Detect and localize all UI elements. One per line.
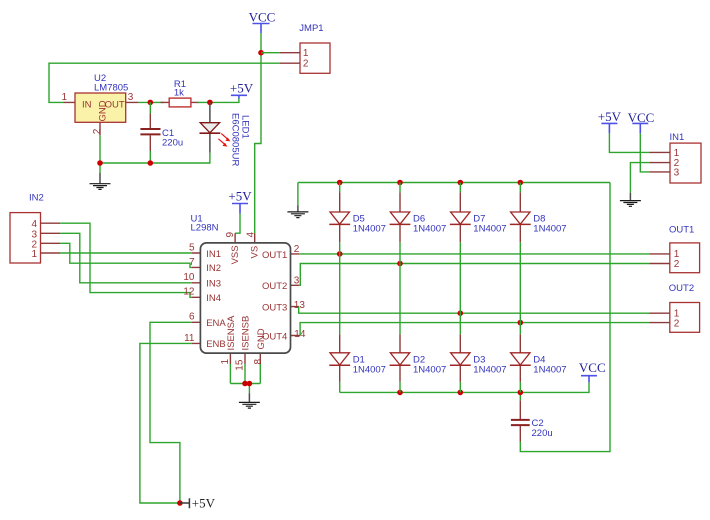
svg-text:11: 11 [184,333,195,344]
svg-text:OUT2: OUT2 [669,283,694,294]
svg-text:1N4007: 1N4007 [353,224,386,235]
svg-text:OUT3: OUT3 [262,302,287,313]
LED LED1 E6C0805UR [200,102,251,166]
diode D8 1N4007 [510,183,567,335]
wire JMP1 pin 2 to U2 IN [49,63,280,102]
node C1 bottom junction [148,160,154,166]
svg-text:7: 7 [189,257,195,268]
svg-text:1N4007: 1N4007 [473,365,506,376]
node VCC/JMP1 junction [258,50,264,56]
node R1/C1 junction [148,100,154,106]
node top bus junctions [337,180,343,186]
svg-text:IN3: IN3 [206,279,221,290]
svg-text:IN1: IN1 [206,249,221,260]
wire IN1 pin 2 to ground [630,163,649,193]
diode D4 1N4007 [510,334,567,392]
svg-text:VCC: VCC [579,360,606,375]
svg-text:E6C0805UR: E6C0805UR [230,113,241,166]
svg-text:9: 9 [225,232,236,238]
wire OUT2 to row B [299,264,649,286]
svg-text:IN4: IN4 [206,293,221,304]
wire U1 ENB to +5V [140,343,192,503]
diode D3 1N4007 [450,334,507,392]
power symbol VCC (bottom) [579,360,606,382]
svg-text:ENA: ENA [206,318,226,329]
svg-text:1: 1 [32,249,38,260]
svg-text:1N4007: 1N4007 [413,365,446,376]
IC U1 L298N motor driver [183,213,305,370]
wire junction to JMP1 pin 1 [261,52,280,54]
svg-text:VCC: VCC [249,10,276,25]
svg-text:6: 6 [189,312,195,323]
svg-text:13: 13 [294,300,306,311]
diode D7 1N4007 [450,183,507,335]
svg-text:ENB: ENB [206,339,226,350]
wire VCC to IN1 pin 3 [640,133,649,172]
svg-text:VS: VS [249,246,260,259]
svg-text:2: 2 [674,318,680,329]
svg-text:1N4007: 1N4007 [413,224,446,235]
svg-text:3: 3 [294,275,300,286]
svg-text:LM7805: LM7805 [94,83,128,94]
svg-text:220u: 220u [532,428,553,439]
svg-text:12: 12 [183,287,195,298]
svg-text:1N4007: 1N4007 [533,365,566,376]
svg-text:220u: 220u [162,137,183,148]
wire R1 right to +5V and LED [197,98,239,102]
power symbol +5V (bottom) [180,496,216,511]
svg-text:1N4007: 1N4007 [473,224,506,235]
wire IN2 pin4 to U1 IN4 [60,223,192,297]
power symbol VCC (top) [249,10,276,33]
ground (top bus) [287,206,308,218]
svg-text:OUT2: OUT2 [262,281,287,292]
capacitor C1 [140,102,183,163]
diode D6 1N4007 [390,183,447,335]
node ENA/ENB junction [177,500,183,506]
svg-text:GND: GND [256,328,267,349]
connector OUT1 [649,224,699,272]
ground (IN1) [620,193,641,207]
svg-text:OUT1: OUT1 [262,250,287,261]
wire GND bus right side down to C2 [520,183,610,452]
voltage regulator U2 LM7805 [62,73,139,135]
power symbol +5V (IN1) [598,109,622,133]
wire VCC vertical to VS pin of U1 [255,33,261,234]
svg-text:4: 4 [246,232,257,238]
wire IN2 pin2 to U1 IN2 [60,243,192,267]
svg-text:1: 1 [220,359,231,365]
wire U1 bottom pins to ground [230,364,260,393]
svg-text:ISENSB: ISENSB [240,316,251,351]
svg-text:VSS: VSS [230,245,241,264]
diode D1 1N4007 [329,334,386,392]
power symbol VCC (IN1) [628,110,655,133]
capacitor C2 [511,392,553,441]
wire +5V to VSS pin [235,214,240,234]
svg-text:2: 2 [303,58,309,69]
wire OUT1 row A [299,253,649,255]
node R1/LED junction [207,100,213,106]
svg-text:1: 1 [303,48,309,59]
svg-text:5: 5 [189,242,195,253]
svg-text:IN: IN [82,100,92,111]
wire U2 GND pin down [99,135,101,173]
ground (U1) [239,393,260,408]
svg-text:+5V: +5V [228,189,252,204]
node ISENSB/GND junctions [242,381,248,387]
connector IN1 [649,132,701,183]
svg-text:IN1: IN1 [670,132,685,143]
wire OUT3 to row C [299,307,650,314]
svg-text:OUT1: OUT1 [669,224,694,235]
node bottom bus junctions [397,390,403,396]
resistor R1 [161,79,200,107]
wire U1 ENA to +5V [150,322,192,503]
svg-text:1N4007: 1N4007 [353,365,386,376]
svg-text:L298N: L298N [191,223,219,234]
wire +5V to IN1 pin 1 [609,133,649,152]
wire bottom VCC bus [340,382,589,392]
diode D2 1N4007 [390,334,447,392]
svg-text:1N4007: 1N4007 [533,224,566,235]
svg-text:+5V: +5V [192,496,216,511]
svg-text:+5V: +5V [598,109,622,124]
svg-text:2: 2 [92,128,103,134]
wire top GND bus [298,183,610,206]
wire U2 OUT net [138,101,164,103]
svg-text:15: 15 [235,359,246,371]
svg-text:1k: 1k [174,88,184,99]
svg-text:3: 3 [674,167,680,178]
node row junctions [337,251,343,257]
svg-text:IN2: IN2 [29,193,44,204]
svg-text:1: 1 [62,92,68,103]
connector JMP1 [280,23,330,73]
wire IN2 pin3 to U1 IN3 [60,233,192,282]
svg-text:2: 2 [674,259,680,270]
ground (U2) [90,173,111,189]
wire OUT4 to row D [300,323,649,336]
connector OUT2 [650,283,700,333]
wire LED cathode to ground bus [100,153,210,163]
connector IN2 [10,193,60,264]
svg-text:JMP1: JMP1 [299,23,323,34]
svg-text:10: 10 [183,272,195,283]
wire IN2 pin1 to U1 IN1 [60,252,192,254]
svg-text:IN2: IN2 [206,263,221,274]
svg-text:ISENSA: ISENSA [226,315,237,351]
svg-text:GND: GND [97,100,108,121]
svg-text:2: 2 [294,244,300,255]
svg-text:8: 8 [253,359,264,365]
svg-text:3: 3 [128,92,134,103]
diode D5 1N4007 [329,183,386,335]
node U2 GND junction [97,160,103,166]
power symbol +5V (U1 VSS) [228,189,252,214]
power symbol +5V (regulator output) [230,81,254,99]
svg-text:+5V: +5V [230,81,254,96]
